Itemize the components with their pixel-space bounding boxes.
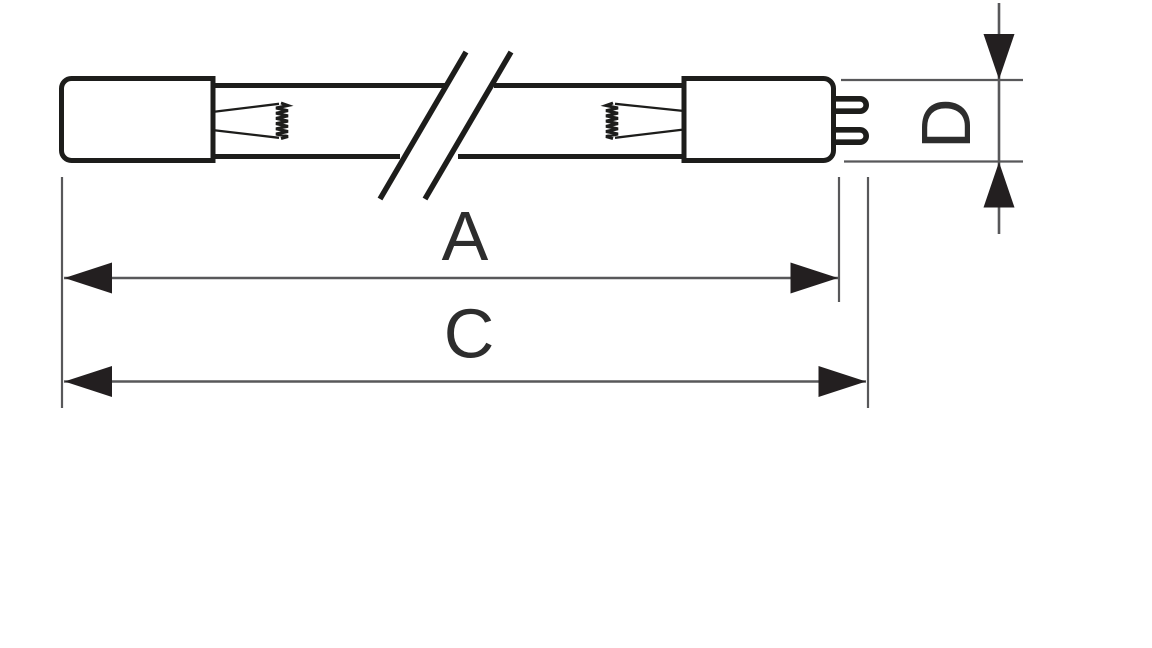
arrowhead D top: [984, 34, 1015, 80]
svg-text:C: C: [444, 295, 495, 373]
right end cap: [684, 79, 834, 161]
pin 1 top: [834, 99, 866, 111]
arrowhead C left: [65, 366, 113, 397]
extension line D bottom: [844, 160, 1023, 162]
break line 2: [425, 52, 511, 199]
dimension line C: [64, 380, 866, 383]
pin 2 bottom: [834, 130, 866, 142]
arrowhead A left: [65, 263, 113, 294]
right electrode lead top: [615, 104, 684, 111]
right electrode coil zigzag: [606, 103, 618, 139]
right electrode lead bottom: [615, 130, 684, 138]
extension line D top: [841, 79, 1023, 81]
svg-text:A: A: [442, 197, 489, 275]
left electrode coil zigzag: [276, 103, 288, 139]
tube top wall right segment: [494, 83, 685, 88]
svg-text:D: D: [907, 98, 985, 149]
extension line right C: [867, 177, 869, 408]
arrowhead A right: [791, 263, 839, 294]
tube bottom wall right segment: [458, 154, 685, 159]
extension line left (A/C): [61, 177, 63, 408]
dimension line D vertical: [998, 3, 1001, 234]
break line 1: [380, 52, 466, 199]
left electrode lead top: [212, 104, 279, 112]
dimension line A: [64, 277, 838, 280]
left end cap: [62, 79, 214, 161]
left electrode lead bottom: [212, 130, 279, 138]
arrowhead C right: [819, 366, 867, 397]
extension line right A: [838, 177, 840, 302]
arrowhead D bottom: [984, 162, 1015, 208]
tube top wall left segment: [211, 83, 448, 88]
tube bottom wall left segment: [211, 154, 400, 159]
